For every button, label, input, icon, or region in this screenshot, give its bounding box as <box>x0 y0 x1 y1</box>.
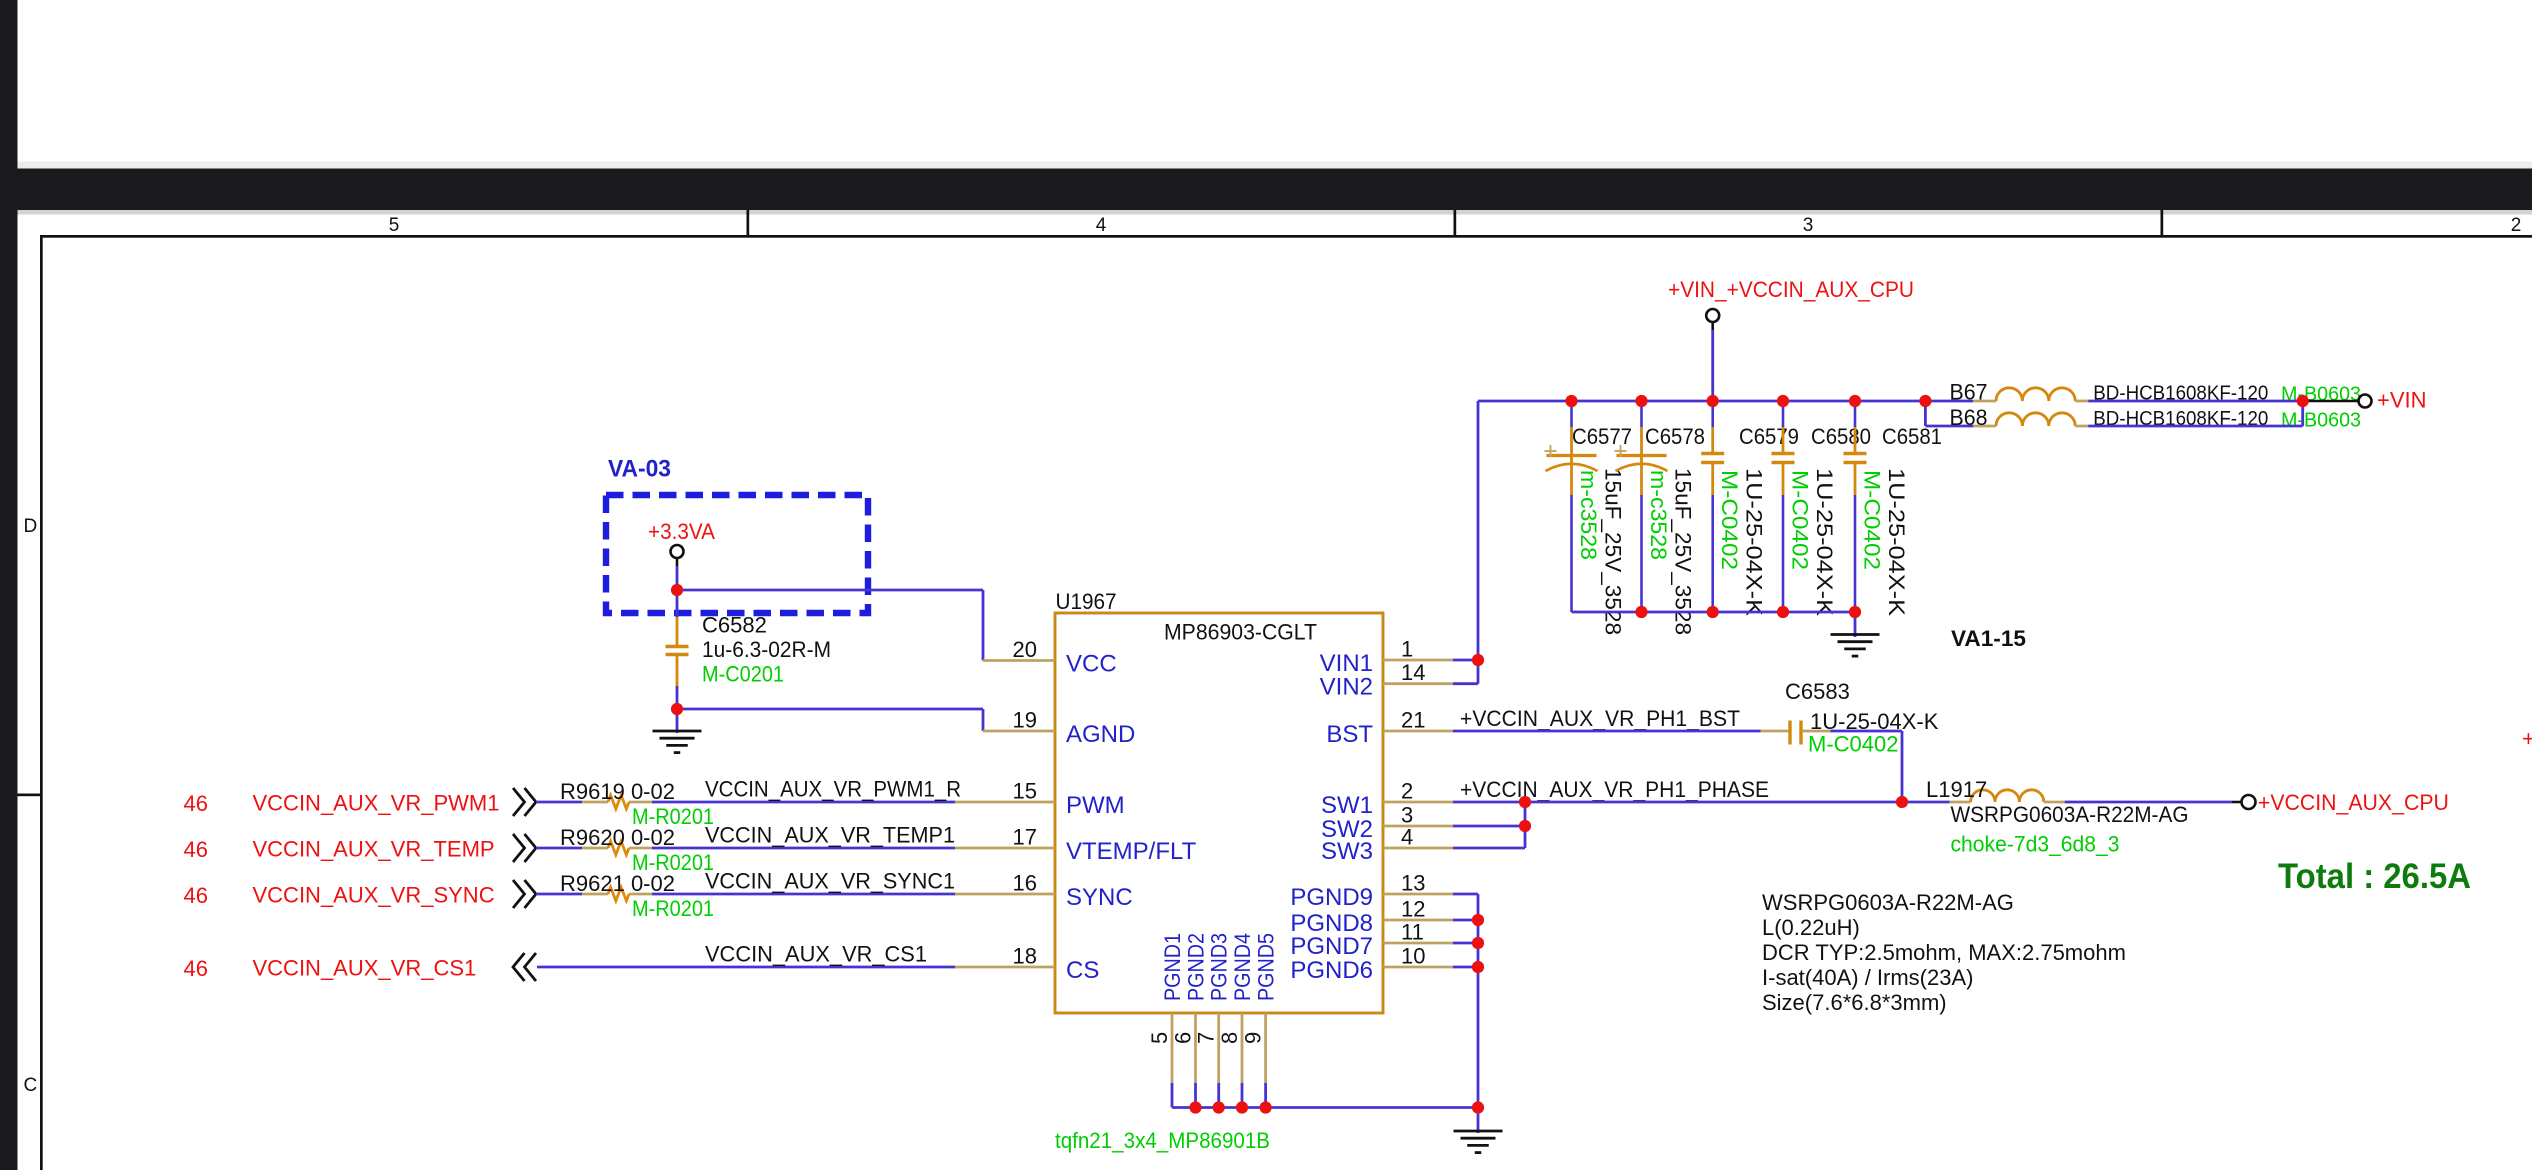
wire PGND9 horiz <box>1453 893 1478 896</box>
svg-text:R9621 0-02: R9621 0-02 <box>560 871 675 896</box>
svg-text:C6577: C6577 <box>1572 424 1632 449</box>
svg-text:5: 5 <box>1147 1032 1172 1044</box>
sheet border ruler line <box>40 235 2532 238</box>
wire PWM chevron to resistor <box>536 801 582 804</box>
svg-text:C6578: C6578 <box>1645 424 1705 449</box>
svg-text:17: 17 <box>1013 825 1037 850</box>
svg-text:DCR TYP:2.5mohm, MAX:2.75mohm: DCR TYP:2.5mohm, MAX:2.75mohm <box>1762 940 2126 965</box>
capacitor C6580 <box>1782 401 1785 427</box>
ground IC power ground <box>1454 1130 1503 1133</box>
junction bottom dot C6580 <box>1777 606 1789 618</box>
IC pin 13 (PGND9) stub <box>1383 893 1453 896</box>
capacitor C6577 <box>1570 401 1573 427</box>
wire VIN1 link <box>1453 659 1478 662</box>
svg-text:1U-25-04X-K: 1U-25-04X-K <box>1742 468 1767 616</box>
wire CS chevron to pin <box>537 966 955 969</box>
wire AGND drop vertical <box>982 709 985 731</box>
black toolbar band <box>0 169 2532 211</box>
wire SYNC resistor to pin <box>652 893 955 896</box>
wire SW1 to L1917 <box>1453 801 1950 804</box>
svg-text:2: 2 <box>1401 779 1413 804</box>
IC pin 16 (SYNC) stub <box>955 893 1055 896</box>
svg-text:AGND: AGND <box>1066 721 1135 748</box>
svg-text:VIN2: VIN2 <box>1320 674 1373 701</box>
IC pin 17 (VTEMP/FLT) stub <box>955 847 1055 850</box>
junction PGND4 dot <box>1236 1101 1248 1113</box>
svg-text:PGND2: PGND2 <box>1184 933 1209 1001</box>
IC pin 19 (AGND) stub <box>983 730 1055 733</box>
svg-text:VCCIN_AUX_VR_CS1: VCCIN_AUX_VR_CS1 <box>705 942 927 967</box>
IC pin 11 (PGND7) stub <box>1383 942 1453 945</box>
off-page connector output chevron TEMP <box>513 834 536 862</box>
junction PGND8 dot <box>1472 914 1484 926</box>
junction SW1 dot <box>1519 796 1531 808</box>
wire B68 drop <box>1924 401 1927 426</box>
svg-text:VCCIN_AUX_VR_SYNC: VCCIN_AUX_VR_SYNC <box>253 883 495 908</box>
svg-text:choke-7d3_6d8_3: choke-7d3_6d8_3 <box>1951 832 2120 857</box>
wire bus to VIN1 vertical <box>1477 401 1480 660</box>
svg-text:+: + <box>2522 726 2532 751</box>
left black sidebar <box>0 0 18 1170</box>
junction PGND5 dot <box>1260 1101 1272 1113</box>
wire BST to C6583 <box>1453 730 1761 733</box>
svg-text:19: 19 <box>1013 708 1037 733</box>
wire L1917 to port <box>2065 801 2232 804</box>
junction PGND bus right dot <box>1472 1101 1484 1113</box>
svg-text:D: D <box>24 516 38 537</box>
svg-text:+VIN: +VIN <box>2377 388 2427 413</box>
wire TEMP resistor to pin <box>652 847 955 850</box>
wire VIN top bus <box>1478 400 1925 403</box>
capacitor C6579 <box>1711 401 1714 427</box>
svg-text:L(0.22uH): L(0.22uH) <box>1762 915 1860 940</box>
ferrite bead B67 <box>1973 400 1996 403</box>
wire B67 out <box>2088 400 2303 403</box>
svg-text:C6579: C6579 <box>1739 424 1799 449</box>
svg-text:10: 10 <box>1401 944 1425 969</box>
svg-text:46: 46 <box>184 883 208 908</box>
ground cap bank <box>1831 633 1880 636</box>
svg-text:M-B0603: M-B0603 <box>2281 410 2361 432</box>
svg-text:11: 11 <box>1401 920 1424 945</box>
svg-text:M-C0402: M-C0402 <box>1717 470 1742 570</box>
ground C6582 <box>653 730 702 733</box>
junction PGND2 dot <box>1189 1101 1201 1113</box>
wire C6582 to ground <box>676 709 679 733</box>
svg-text:9: 9 <box>1241 1032 1266 1044</box>
IC pin 9 (PGND5) stub <box>1264 1013 1267 1083</box>
svg-text:VCC: VCC <box>1066 651 1117 678</box>
wire SW2 link <box>1453 825 1525 828</box>
svg-text:C6582: C6582 <box>702 613 767 638</box>
svg-text:M-C0201: M-C0201 <box>702 662 784 687</box>
IC pin 18 (CS) stub <box>955 966 1055 969</box>
svg-text:Size(7.6*6.8*3mm): Size(7.6*6.8*3mm) <box>1762 990 1947 1015</box>
sheet border left vertical line <box>40 235 43 1170</box>
IC pin 20 (VCC) stub <box>983 659 1055 662</box>
svg-text:VCCIN_AUX_VR_PWM1: VCCIN_AUX_VR_PWM1 <box>253 791 500 816</box>
capacitor C6583 symbol <box>1761 730 1790 733</box>
junction bus dot at C6577 <box>1565 395 1577 407</box>
svg-text:PGND7: PGND7 <box>1290 933 1373 960</box>
svg-text:PGND3: PGND3 <box>1207 933 1232 1001</box>
svg-text:PGND1: PGND1 <box>1160 933 1185 1001</box>
svg-text:18: 18 <box>1013 944 1037 969</box>
junction SW2 dot <box>1519 820 1531 832</box>
svg-text:1u-6.3-02R-M: 1u-6.3-02R-M <box>702 637 831 662</box>
wire TEMP chevron to resistor <box>536 847 582 850</box>
svg-text:13: 13 <box>1401 871 1425 896</box>
svg-text:1U-25-04X-K: 1U-25-04X-K <box>1812 468 1837 616</box>
svg-text:+VCCIN_AUX_VR_PH1_BST: +VCCIN_AUX_VR_PH1_BST <box>1460 706 1740 731</box>
svg-text:L1917: L1917 <box>1926 777 1987 802</box>
wire SW3 up <box>1524 802 1527 848</box>
svg-text:M-C0402: M-C0402 <box>1788 470 1813 570</box>
svg-text:PGND4: PGND4 <box>1230 933 1255 1001</box>
svg-text:21: 21 <box>1401 708 1425 733</box>
svg-text:+VIN_+VCCIN_AUX_CPU: +VIN_+VCCIN_AUX_CPU <box>1668 277 1914 302</box>
svg-text:46: 46 <box>184 956 208 981</box>
svg-text:VCCIN_AUX_VR_TEMP: VCCIN_AUX_VR_TEMP <box>253 837 495 862</box>
power port +VIN terminal <box>2359 395 2372 408</box>
svg-text:M-C0402: M-C0402 <box>1860 470 1885 570</box>
svg-text:VTEMP/FLT: VTEMP/FLT <box>1066 838 1197 865</box>
svg-text:+3.3VA: +3.3VA <box>648 519 715 544</box>
svg-text:15uF_25V_3528: 15uF_25V_3528 <box>1671 468 1696 635</box>
page top shadow strip under band <box>18 210 2532 215</box>
wire ground stem <box>1477 1108 1480 1134</box>
svg-text:SW3: SW3 <box>1321 838 1373 865</box>
column tick 5/4 <box>747 210 750 237</box>
power port +VCCIN_AUX_CPU terminal <box>2242 795 2256 809</box>
svg-text:3: 3 <box>1803 215 1814 236</box>
power port +VIN_+VCCIN_AUX_CPU terminal <box>1706 309 1719 322</box>
column tick 4/3 <box>1454 210 1457 237</box>
capacitor C6582 symbol <box>676 617 679 646</box>
junction bus dot at C6580 <box>1777 395 1789 407</box>
svg-text:5: 5 <box>389 215 400 236</box>
svg-text:4: 4 <box>1401 825 1413 850</box>
capacitor C6582 top lead wire <box>676 590 679 617</box>
IC pin 7 (PGND3) stub <box>1217 1013 1220 1083</box>
svg-text:B67: B67 <box>1950 380 1988 405</box>
junction bus dot at C6581 <box>1849 395 1861 407</box>
junction PGND3 dot <box>1213 1101 1225 1113</box>
svg-text:2: 2 <box>2511 215 2522 236</box>
ferrite bead B68 <box>1973 425 1996 428</box>
IC pin 14 (VIN2) stub <box>1383 682 1453 685</box>
svg-text:VCCIN_AUX_VR_SYNC1: VCCIN_AUX_VR_SYNC1 <box>705 869 955 894</box>
wire PGND9 to bus vertical <box>1477 894 1480 1108</box>
svg-text:1: 1 <box>1401 637 1413 662</box>
svg-text:SW1: SW1 <box>1321 792 1373 819</box>
svg-text:tqfn21_3x4_MP86901B: tqfn21_3x4_MP86901B <box>1055 1128 1270 1153</box>
wire AGND horizontal <box>677 708 983 711</box>
svg-text:CS: CS <box>1066 957 1099 984</box>
wire SW3 link <box>1453 847 1525 850</box>
wire PWM resistor to pin <box>652 801 955 804</box>
wire SYNC chevron to resistor <box>536 893 582 896</box>
junction VIN1 dot <box>1472 654 1484 666</box>
wire to +VCCIN_AUX_CPU terminal <box>2232 801 2242 804</box>
svg-text:VA1-15: VA1-15 <box>1951 626 2026 651</box>
svg-text:I-sat(40A) / Irms(23A): I-sat(40A) / Irms(23A) <box>1762 965 1973 990</box>
svg-text:+VCCIN_AUX_CPU: +VCCIN_AUX_CPU <box>2258 790 2449 815</box>
wire PGND bottom bus <box>1172 1106 1478 1109</box>
svg-text:VCCIN_AUX_VR_CS1: VCCIN_AUX_VR_CS1 <box>253 956 477 981</box>
wire terminal to bus <box>1711 322 1714 330</box>
off-page connector output chevron PWM <box>513 788 536 816</box>
wire PGND7 link <box>1453 942 1478 945</box>
capacitor C6578 <box>1640 401 1643 427</box>
svg-text:C: C <box>24 1075 38 1096</box>
svg-text:C6583: C6583 <box>1785 679 1850 704</box>
IC pin 4 (SW3) stub <box>1383 847 1453 850</box>
svg-text:U1967: U1967 <box>1056 589 1117 614</box>
IC pin 6 (PGND2) stub <box>1194 1013 1197 1083</box>
wires PGND1-5 drops <box>1171 1083 1174 1108</box>
svg-text:16: 16 <box>1013 871 1037 896</box>
svg-text:4: 4 <box>1096 215 1107 236</box>
IC pin 15 (PWM) stub <box>955 801 1055 804</box>
svg-text:SYNC: SYNC <box>1066 884 1133 911</box>
svg-text:12: 12 <box>1401 897 1425 922</box>
wire to +VIN terminal <box>2303 400 2358 403</box>
junction PGND7 dot <box>1472 937 1484 949</box>
svg-text:C6581: C6581 <box>1882 424 1942 449</box>
wire B68 out <box>2088 425 2303 428</box>
dashed group box VA-03 <box>606 495 868 613</box>
page-gap gray strip <box>18 162 2532 169</box>
row tick D/C <box>18 794 41 797</box>
junction +3.3VA node <box>671 584 683 596</box>
svg-text:Total : 26.5A: Total : 26.5A <box>2278 857 2471 896</box>
wire cap bank bottom bus <box>1572 611 1856 614</box>
off-page connector output chevron SYNC <box>513 880 536 908</box>
svg-text:PGND6: PGND6 <box>1290 957 1373 984</box>
svg-text:7: 7 <box>1194 1032 1219 1044</box>
junction bottom dot C6581 <box>1849 606 1861 618</box>
IC pin 8 (PGND4) stub <box>1241 1013 1244 1083</box>
wire VCC drop vertical <box>982 590 985 661</box>
capacitor C6581 <box>1854 401 1857 427</box>
power port +3.3VA terminal <box>671 545 684 558</box>
resistor R9620 <box>582 847 608 850</box>
wire VIN2 up to VIN1 <box>1477 660 1480 684</box>
wire bus to B67 <box>1925 400 1973 403</box>
svg-text:B68: B68 <box>1950 405 1988 430</box>
wire C6582 bottom <box>676 686 679 709</box>
wire C6583 to corner <box>1830 730 1902 733</box>
svg-text:1U-25-04X-K: 1U-25-04X-K <box>1884 468 1909 616</box>
IC pin 12 (PGND8) stub <box>1383 919 1453 922</box>
wire BST drop to phase <box>1901 731 1904 802</box>
svg-text:PGND5: PGND5 <box>1254 933 1279 1001</box>
svg-text:C6580: C6580 <box>1811 424 1871 449</box>
IC pin 2 (SW1) stub <box>1383 801 1453 804</box>
svg-text:m-c3528: m-c3528 <box>1576 470 1601 560</box>
wire PGND6 link <box>1453 966 1478 969</box>
wire VIN2 link <box>1453 682 1478 685</box>
IC U1967 body <box>1055 613 1383 1013</box>
svg-text:BST: BST <box>1326 721 1373 748</box>
svg-text:14: 14 <box>1401 660 1425 685</box>
svg-text:VCCIN_AUX_VR_TEMP1: VCCIN_AUX_VR_TEMP1 <box>705 823 955 848</box>
svg-text:VCCIN_AUX_VR_PWM1_R: VCCIN_AUX_VR_PWM1_R <box>705 777 961 802</box>
wire B68 up join <box>2301 401 2304 426</box>
svg-text:PGND9: PGND9 <box>1290 884 1373 911</box>
wire +3.3VA to VCC horizontal <box>677 589 983 592</box>
column tick 3/2 <box>2161 210 2164 237</box>
inductor L1917 <box>1950 801 1971 804</box>
svg-text:M-C0402: M-C0402 <box>1808 732 1898 757</box>
junction bus dot at C6579 <box>1707 395 1719 407</box>
svg-text:WSRPG0603A-R22M-AG: WSRPG0603A-R22M-AG <box>1951 802 2189 827</box>
svg-text:MP86903-CGLT: MP86903-CGLT <box>1164 620 1317 645</box>
junction bottom dot C6579 <box>1707 606 1719 618</box>
IC pin 1 (VIN1) stub <box>1383 659 1453 662</box>
wire to B68 <box>1925 425 1973 428</box>
wire cap bank ground stem <box>1854 612 1857 637</box>
junction PGND6 dot <box>1472 961 1484 973</box>
IC pin 10 (PGND6) stub <box>1383 966 1453 969</box>
svg-text:+VCCIN_AUX_VR_PH1_PHASE: +VCCIN_AUX_VR_PH1_PHASE <box>1460 777 1769 802</box>
junction BST drop dot <box>1896 796 1908 808</box>
svg-text:WSRPG0603A-R22M-AG: WSRPG0603A-R22M-AG <box>1762 890 2014 915</box>
resistor R9621 <box>582 893 608 896</box>
IC pin 21 (BST) stub <box>1383 730 1453 733</box>
svg-text:R9620 0-02: R9620 0-02 <box>560 825 675 850</box>
svg-text:6: 6 <box>1171 1032 1196 1044</box>
svg-text:8: 8 <box>1217 1032 1242 1044</box>
junction +VIN dot <box>2297 395 2309 407</box>
svg-text:46: 46 <box>184 791 208 816</box>
junction bus dot at C6578 <box>1635 395 1647 407</box>
svg-text:46: 46 <box>184 837 208 862</box>
IC pin 3 (SW2) stub <box>1383 825 1453 828</box>
svg-text:M-R0201: M-R0201 <box>632 896 714 921</box>
svg-text:m-c3528: m-c3528 <box>1646 470 1671 560</box>
off-page connector input chevron CS <box>513 953 536 981</box>
wire +3.3VA down <box>676 558 679 566</box>
IC pin 5 (PGND1) stub <box>1171 1013 1174 1083</box>
svg-text:20: 20 <box>1013 637 1037 662</box>
svg-text:PWM: PWM <box>1066 792 1125 819</box>
wire PGND8 link <box>1453 919 1478 922</box>
svg-text:15: 15 <box>1013 779 1037 804</box>
junction bottom dot C6578 <box>1635 606 1647 618</box>
junction AGND node <box>671 703 683 715</box>
svg-text:15uF_25V_3528: 15uF_25V_3528 <box>1601 468 1626 635</box>
svg-text:VA-03: VA-03 <box>608 456 671 483</box>
resistor R9619 <box>582 801 608 804</box>
junction bus dot at bead split <box>1919 395 1931 407</box>
svg-text:R9619 0-02: R9619 0-02 <box>560 779 675 804</box>
